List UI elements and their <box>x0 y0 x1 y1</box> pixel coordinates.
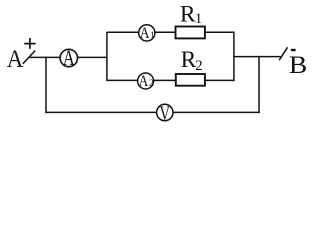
label R1 <box>180 2 202 28</box>
svg-text:A: A <box>63 45 75 70</box>
ammeter A1 <box>139 25 155 42</box>
wire A1 to R1 <box>155 31 175 33</box>
ammeter A2 <box>138 73 154 90</box>
ammeter A (main) <box>60 45 77 70</box>
svg-text:1: 1 <box>150 30 155 40</box>
wire A2 to R2 <box>154 79 176 81</box>
minus sign at terminal B <box>291 49 296 51</box>
wire top branch left <box>107 31 139 33</box>
bottom wire left of voltmeter <box>45 111 156 113</box>
wire left tee down to voltmeter loop <box>45 57 47 113</box>
svg-text:B: B <box>289 52 307 79</box>
svg-text:2: 2 <box>195 58 203 74</box>
left bus of parallel section <box>106 32 108 82</box>
wire bottom branch left <box>107 79 138 81</box>
terminal A slash <box>23 51 36 64</box>
wire A to ammeter <box>30 56 61 58</box>
svg-text:A: A <box>139 73 149 90</box>
wire R2 to right bus <box>205 79 235 81</box>
svg-text:R: R <box>180 2 196 28</box>
resistor R2 <box>176 74 205 86</box>
right bus of parallel section <box>233 32 235 82</box>
plus sign at terminal A <box>24 38 35 49</box>
svg-text:2: 2 <box>149 78 154 88</box>
resistor R1 <box>176 27 205 39</box>
wire ammeter to left junction <box>78 56 108 58</box>
bottom wire right of voltmeter <box>173 111 260 113</box>
wire right tee down to voltmeter loop <box>258 56 260 113</box>
wire R1 to right bus <box>205 31 235 33</box>
voltmeter V <box>157 102 173 124</box>
wire right bus to terminal B <box>234 56 281 58</box>
svg-text:A: A <box>140 25 150 42</box>
svg-text:V: V <box>159 102 170 124</box>
label R2 <box>181 47 203 74</box>
svg-text:1: 1 <box>195 11 203 27</box>
svg-text:A: A <box>7 46 24 73</box>
terminal B slash <box>279 47 287 60</box>
